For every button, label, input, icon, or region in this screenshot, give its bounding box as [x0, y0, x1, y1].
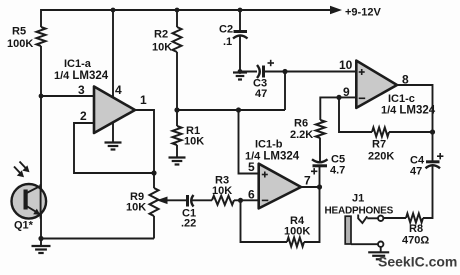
wire V+ supply rail: [41, 6, 342, 14]
svg-text:9: 9: [343, 85, 350, 99]
node G (pin7/C5/R4): [317, 184, 322, 189]
resistor R8: [402, 214, 429, 247]
resistor R2: [152, 27, 182, 54]
wire pin 8 output: [396, 85, 433, 132]
wire pin 1 output: [134, 110, 154, 173]
wire IC1-a V- pin to ground: [112, 122, 114, 142]
svg-text:IC1-c: IC1-c: [388, 93, 415, 105]
svg-text:.1: .1: [223, 36, 232, 48]
node V+ at C2 column: [238, 8, 243, 13]
wire C1 to R3: [192, 199, 212, 201]
capacitor C1: [181, 195, 196, 230]
wire R6 to pin 9 line: [320, 97, 356, 120]
svg-text:2: 2: [80, 109, 87, 123]
wire C5 to R6: [319, 138, 321, 163]
wire V+ to C2: [239, 10, 241, 31]
Q1 collector lead: [26, 186, 41, 194]
svg-text:7: 7: [304, 174, 311, 188]
wire R4 feedback loop: [241, 200, 288, 242]
svg-text:HEADPHONES: HEADPHONES: [325, 206, 394, 217]
wire ground node to C3: [240, 71, 257, 73]
wire R8 to J1 tip: [383, 217, 406, 219]
resistor R4: [284, 215, 310, 247]
node D (bias to pin 5): [236, 107, 241, 112]
node I (R7/C4): [430, 129, 435, 134]
J1 sleeve terminal: [378, 242, 383, 247]
wire R4 to node G: [304, 187, 320, 242]
J1 tip contact: [358, 215, 367, 224]
svg-text:47: 47: [410, 166, 422, 178]
node C (bias divider): [174, 107, 179, 112]
node E (C3/pin10/bias): [282, 69, 287, 74]
svg-text:C2: C2: [219, 24, 233, 36]
ground under C2: [233, 73, 247, 80]
capacitor C3: [253, 60, 274, 100]
Q1 light arrows: [14, 162, 30, 178]
wire R2 to bias node: [176, 52, 178, 110]
wire C4 to R8: [423, 166, 433, 218]
svg-text:1/4 LM324: 1/4 LM324: [381, 105, 436, 117]
wire pin 10 input: [285, 71, 356, 73]
svg-text:10K: 10K: [126, 202, 146, 214]
svg-text:10K: 10K: [212, 185, 232, 197]
capacitor C4: [410, 153, 443, 178]
svg-text:220K: 220K: [368, 151, 394, 163]
wire J1 sleeve: [351, 243, 378, 245]
svg-text:R5: R5: [12, 26, 26, 38]
wire C2 to ground node: [239, 36, 241, 72]
capacitor C5: [311, 154, 345, 177]
svg-text:Q1*: Q1*: [14, 220, 34, 232]
wire through Q1 (collector-emitter column): [40, 184, 42, 219]
wire bias rail: [177, 109, 285, 111]
svg-text:+9-12V: +9-12V: [345, 7, 381, 19]
wire tip contact to terminal: [367, 217, 378, 219]
wire bias to pin 5: [239, 110, 259, 174]
J1 tip terminal: [378, 216, 383, 221]
ground under R1: [169, 158, 186, 165]
resistor R1: [173, 125, 205, 148]
svg-text:100K: 100K: [284, 226, 310, 238]
wire R9 to bottom rail: [153, 216, 155, 239]
svg-text:3: 3: [78, 83, 85, 97]
Q1 base bar: [24, 190, 28, 210]
svg-text:470Ω: 470Ω: [402, 235, 429, 247]
svg-text:4.7: 4.7: [330, 165, 345, 177]
svg-text:47: 47: [255, 88, 267, 100]
node J (Q1 emitter / ground): [38, 236, 43, 241]
svg-text:IC1-a: IC1-a: [64, 58, 92, 70]
resistor R6: [290, 118, 325, 142]
svg-text:1/4 LM324: 1/4 LM324: [54, 70, 109, 82]
node H (pin 9 / R7): [336, 95, 341, 100]
svg-text:SeekIC.com: SeekIC.com: [378, 254, 457, 270]
capacitor C2: [219, 24, 248, 49]
svg-text:R8: R8: [409, 223, 423, 235]
R9 wiper arrow: [157, 197, 188, 205]
transistor Q1 (photo) body: [12, 184, 47, 219]
wire node E down to bias rail: [284, 72, 286, 111]
wire R1 to ground: [176, 145, 178, 157]
wire R3 to pin 6: [234, 199, 258, 201]
wire node G to C5: [319, 166, 321, 187]
node V+ at R2 column: [175, 8, 180, 13]
wire C3 to node E: [264, 71, 286, 73]
svg-text:J1: J1: [352, 193, 364, 205]
wire R5 to node A: [40, 46, 42, 96]
wire node J to ground: [40, 239, 42, 246]
resistor R5: [7, 26, 46, 51]
Q1 emitter lead: [26, 206, 41, 215]
wire pin 4 to V+ rail: [112, 10, 114, 98]
svg-text:1: 1: [140, 93, 147, 107]
wire ground rail: [41, 238, 154, 240]
resistor R7: [368, 128, 394, 163]
svg-text:IC1-b: IC1-b: [255, 139, 283, 151]
wire node B to R9: [153, 173, 155, 188]
svg-text:6: 6: [248, 188, 255, 202]
op-amp IC1-c: [356, 61, 435, 117]
resistor R3: [212, 175, 234, 205]
wire R7 to node I: [389, 131, 433, 133]
resistor R9 (trimmer): [126, 188, 159, 216]
wire pin 7 output: [300, 186, 320, 188]
wire pin 2 feedback loop: [74, 123, 154, 173]
svg-text:R7: R7: [372, 139, 386, 151]
ground under IC1-a: [105, 143, 122, 150]
connector J1 plug body: [345, 216, 351, 244]
wire V+ to R2: [176, 10, 178, 27]
wire node A to Q1 collector: [40, 96, 42, 239]
wire bias node to R1: [176, 110, 178, 126]
wire pin 3 input: [41, 95, 93, 97]
svg-text:10K: 10K: [152, 42, 172, 54]
svg-text:4: 4: [115, 83, 122, 97]
svg-text:10: 10: [339, 58, 353, 72]
op-amp IC1-b: [245, 139, 301, 209]
node A (R5/Q1/pin3): [39, 94, 44, 99]
svg-text:10K: 10K: [184, 136, 204, 148]
wire node I to C4: [432, 132, 434, 161]
wire V+ to R5: [40, 9, 42, 27]
svg-text:100K: 100K: [7, 38, 33, 50]
ground under Q1: [32, 246, 51, 253]
node B (pin1/feedback/R9): [151, 170, 156, 175]
op-amp IC1-a: [54, 58, 135, 133]
wire sleeve to ground: [380, 247, 382, 252]
wire R7 feedback: [339, 97, 372, 132]
node F (pin 6): [238, 198, 243, 203]
node V+ at pin4 column: [111, 8, 116, 13]
svg-text:.22: .22: [181, 218, 196, 230]
svg-text:R6: R6: [294, 118, 308, 130]
ground under J1: [368, 252, 389, 259]
svg-text:R2: R2: [154, 29, 168, 41]
svg-text:5: 5: [248, 160, 255, 174]
svg-text:2.2K: 2.2K: [290, 129, 313, 141]
node C2/C3/ground junction: [238, 69, 243, 74]
